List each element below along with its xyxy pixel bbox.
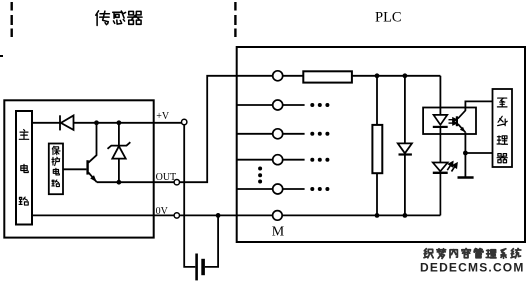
label 主电路 <box>19 130 29 206</box>
wire collector riser <box>88 123 96 163</box>
transistor Q1 emitter with arrow <box>88 172 97 182</box>
optocoupler U1 box <box>423 108 476 135</box>
wire emitter to processor <box>465 152 492 154</box>
junction battery to 0V <box>216 213 221 218</box>
wire diode column top <box>404 76 406 144</box>
vertical ellipsis between rows <box>258 167 262 184</box>
junction M diode column <box>403 213 408 218</box>
wire M bus <box>282 214 440 216</box>
phototransistor Q2 <box>457 110 466 132</box>
terminal M <box>273 211 283 221</box>
wire base from protection circuit <box>63 168 86 170</box>
resistor R1 (input) <box>303 71 352 82</box>
junction zener top node <box>117 120 122 125</box>
svg-text:OUT: OUT <box>156 172 177 183</box>
terminal OUT <box>174 180 179 185</box>
watermark 织梦内容管理系统 <box>424 249 521 259</box>
processor box 至处理器 <box>493 89 513 167</box>
optocoupler LED <box>433 115 448 163</box>
left dashed separator <box>10 2 12 37</box>
wire +V supply riser <box>184 125 195 267</box>
terminal +V <box>182 119 187 124</box>
optocoupler light arrows <box>449 118 457 125</box>
zener diode ZD1 <box>108 123 131 182</box>
right dashed separator <box>234 2 236 37</box>
wire 0V to M terminal <box>180 214 273 216</box>
left edge tick <box>0 55 3 57</box>
svg-text:PLC: PLC <box>375 10 402 26</box>
battery BT1 <box>197 254 204 281</box>
main-circuit box 主电路 <box>16 111 32 225</box>
diode D2 (clamp) <box>398 143 412 154</box>
svg-text:DEDECMS.COM: DEDECMS.COM <box>420 261 525 275</box>
wire emitter down <box>464 132 466 176</box>
junction collector node <box>94 120 99 125</box>
junction row1 diode column <box>403 73 408 78</box>
wire battery negative return <box>205 215 218 267</box>
PLC input circle row1 <box>273 71 283 81</box>
terminal 0V <box>174 213 179 218</box>
PLC enclosure box <box>237 47 525 242</box>
junction zener bottom node <box>117 180 122 185</box>
PLC input row5 <box>237 184 330 194</box>
ground <box>458 176 474 179</box>
wire resistor column top <box>376 76 378 125</box>
wire OUT to PLC input riser <box>180 76 273 182</box>
transistor Q1 base bar <box>86 160 88 174</box>
junction M resistor column <box>375 213 380 218</box>
wire 0V rail <box>32 214 174 216</box>
PLC input row3 <box>237 129 330 139</box>
svg-text:+V: +V <box>156 111 170 122</box>
indicator LED light arrows <box>447 162 457 172</box>
label 传感器 (sensor) <box>96 11 142 26</box>
wire row1 bus <box>352 75 441 77</box>
wire resistor column bottom <box>376 173 378 215</box>
junction emitter node <box>463 151 468 156</box>
junction row1 resistor column <box>375 73 380 78</box>
wire row1 to resistor <box>283 75 303 77</box>
svg-text:0V: 0V <box>156 206 169 217</box>
wire +V rail <box>32 122 60 124</box>
wire diode column bottom <box>404 156 406 216</box>
wire LED column top <box>439 76 441 115</box>
wire collector to processor <box>465 101 492 110</box>
protection-circuit box 保护电路 <box>49 144 63 195</box>
label 至处理器 <box>497 98 507 163</box>
resistor R2 (vertical) <box>372 125 382 173</box>
label 保护电路 <box>52 146 60 186</box>
indicator LED D3 <box>433 163 448 216</box>
svg-text:M: M <box>272 224 285 239</box>
wire diode to +V terminal <box>74 122 182 124</box>
PLC input row4 <box>237 155 330 165</box>
PLC input row2 <box>237 100 330 110</box>
sensor enclosure box <box>4 100 153 237</box>
diode D1 <box>60 115 74 130</box>
wire OUT rail <box>97 181 174 183</box>
